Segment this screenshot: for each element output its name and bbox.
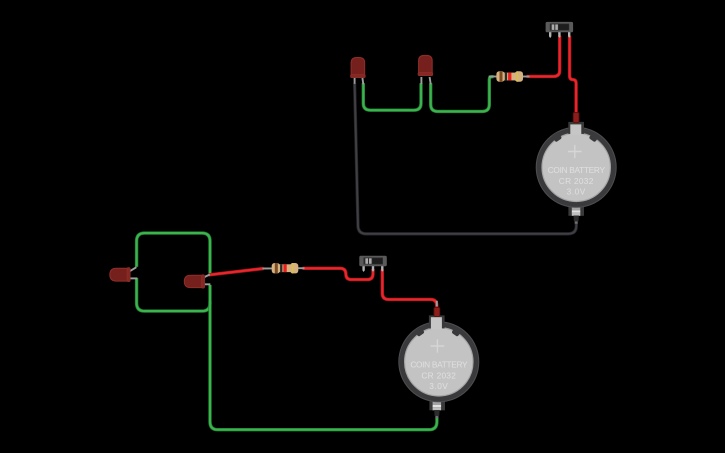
- wire: LED D3 cathode loop bottom to node junction (green): [137, 278, 210, 311]
- resistor R1 left lead: [489, 76, 498, 78]
- battery B1 top tab: [570, 124, 581, 134]
- battery B2 negative terminal plug (black): [434, 410, 439, 418]
- LED D2 anode leg: [430, 77, 431, 84]
- LED D3 anode leg: [130, 267, 137, 271]
- LED D4 anode leg: [204, 275, 210, 278]
- switch S2 pin 2 (to resistor R2): [372, 266, 374, 272]
- coin battery B2 CR2032 3.0V: [399, 315, 479, 410]
- switch S2 pin 3 (to battery B2 +): [381, 266, 383, 272]
- resistor R2 (1k ohm, brown-black-red-gold): [272, 263, 299, 273]
- LED D2 (red LED, top circuit right): [418, 55, 433, 75]
- switch S2 slider knob: [365, 258, 368, 264]
- battery B2 plus mark: [431, 339, 445, 352]
- resistor R1 right lead: [522, 76, 530, 78]
- battery B1 plus mark: [568, 145, 582, 158]
- wire: LED D1 cathode to battery B1 negative (black): [355, 83, 577, 234]
- battery B1 positive terminal plug (red): [573, 112, 579, 122]
- LED D1 anode leg: [362, 77, 363, 84]
- svg-text:3.0V: 3.0V: [429, 381, 448, 391]
- slide switch S1: [546, 22, 574, 38]
- wire: resistor R2 to switch S2 middle pin (red): [303, 268, 374, 279]
- battery B2 cell: [405, 328, 473, 396]
- resistor R2 left lead: [263, 267, 274, 269]
- resistor R1 (1k ohm, brown-black-red-gold): [496, 71, 523, 81]
- battery B1 right clip: [589, 132, 600, 143]
- svg-text:COIN BATTERY: COIN BATTERY: [548, 165, 606, 175]
- wire: switch S2 right pin to battery B2 positive (red): [382, 270, 437, 308]
- battery B1 negative terminal plug (black): [574, 216, 579, 224]
- switch S2 body: [359, 256, 387, 266]
- wire: resistor R1 to switch S1 middle pin (red): [527, 36, 560, 77]
- LED D4 (red LED, bottom circuit right): [184, 275, 204, 289]
- svg-text:COIN BATTERY: COIN BATTERY: [410, 360, 468, 370]
- battery B2 bottom tab: [433, 400, 442, 405]
- resistor R2 right lead: [298, 267, 305, 269]
- battery B1 bottom tab: [572, 206, 581, 211]
- switch S2 pin 1 (unconnected): [362, 266, 364, 272]
- svg-text:CR 2032: CR 2032: [421, 370, 456, 380]
- battery B1 bottom housing: [568, 198, 584, 216]
- LED D3 (red LED, bottom circuit left): [110, 268, 130, 282]
- LED D2 cathode leg: [420, 77, 422, 84]
- switch S1 body: [546, 22, 574, 32]
- LED D3 cathode leg: [130, 277, 137, 279]
- battery B1 left clip: [552, 132, 563, 143]
- wire: LED D3 anode loop top to LED D4 anode (green): [137, 233, 210, 274]
- wire: LED D4 cathode to battery B2 negative (green): [210, 285, 437, 430]
- battery B2 bottom housing: [429, 393, 445, 411]
- battery B1 cell: [542, 133, 610, 201]
- coin battery B1 CR2032 3.0V: [536, 122, 616, 216]
- battery B2 left clip: [414, 326, 425, 337]
- battery B1 holder ring: [536, 127, 616, 207]
- switch S1 pin 1 (unconnected): [549, 32, 551, 38]
- LED D4 cathode leg: [204, 283, 211, 285]
- svg-text:CR 2032: CR 2032: [559, 176, 594, 186]
- battery B2 right clip: [451, 326, 462, 337]
- wire: LED D2 anode to resistor R1 (green): [431, 77, 494, 112]
- battery B2 positive lead stub: [436, 301, 438, 306]
- wire: LED D1 anode to LED D2 cathode (green): [363, 83, 421, 110]
- LED D1 (red LED, top circuit left): [351, 58, 366, 78]
- battery B2 holder ring: [399, 322, 479, 402]
- battery B2 top housing: [429, 315, 445, 328]
- battery B1 top housing: [568, 122, 584, 134]
- svg-text:3.0V: 3.0V: [567, 187, 586, 197]
- switch S1 pin 3 (to battery B1 +): [568, 32, 570, 38]
- LED D1 cathode leg: [354, 77, 356, 84]
- battery B2 top tab: [431, 317, 442, 329]
- battery B2 positive terminal plug (red): [434, 307, 440, 316]
- slide switch S2: [359, 256, 387, 272]
- switch S1 pin 2 (to resistor R1): [558, 32, 560, 38]
- wire: LED D4 anode to resistor R2 (red): [209, 269, 264, 275]
- switch S1 slider knob: [552, 24, 555, 30]
- wire: switch S1 right pin to battery B1 positive (red): [570, 36, 577, 115]
